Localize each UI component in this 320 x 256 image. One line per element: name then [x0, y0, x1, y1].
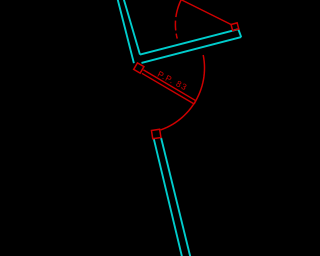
wire wall A inner line	[123, 0, 140, 55]
wire door 2 swing arc solid part	[176, 0, 182, 17]
wire wall B end cap	[238, 29, 241, 37]
wire wall B top line (horizontal wall, cyan)	[140, 29, 238, 54]
wire door 1 leaf lower line	[142, 73, 194, 104]
node door 2 hinge square	[231, 23, 239, 31]
wire door 2 swing arc dash 2	[176, 34, 177, 39]
node door 1 hinge square	[134, 63, 144, 73]
wire wall B bottom line	[142, 37, 242, 63]
wire wall C left line (lower-right wall, cyan)	[154, 139, 183, 256]
wire door 2 swing arc dash 1	[174, 21, 176, 31]
wire door 2 leaf line (top right)	[178, 0, 231, 24]
node door 1 arc end square	[151, 129, 161, 139]
wire door 1 leaf upper line	[143, 70, 195, 101]
wire wall A outer line (upper-left wall, cyan)	[117, 0, 134, 63]
wire door 1 swing arc	[161, 55, 205, 130]
wire wall C right line	[161, 138, 191, 256]
wire door 1 leaf end cap	[194, 101, 196, 104]
